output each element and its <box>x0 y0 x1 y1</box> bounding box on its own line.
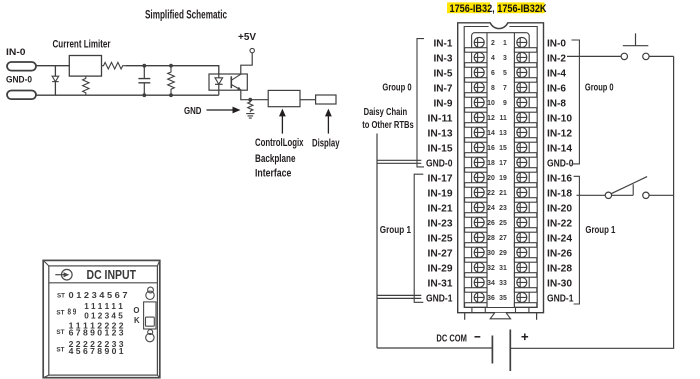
bezel corner diagonals <box>43 260 160 377</box>
terminal row 16|15 <box>465 142 537 157</box>
svg-text:22: 22 <box>487 190 495 197</box>
terminal row 30|29 <box>465 247 537 262</box>
svg-text:IN-4: IN-4 <box>547 69 566 80</box>
RTB inner housing <box>464 27 537 308</box>
DC input icon <box>62 269 73 280</box>
svg-text:20: 20 <box>487 175 495 182</box>
svg-text:8 9: 8 9 <box>68 307 77 316</box>
switch wire to bus <box>649 194 674 196</box>
terminal row 36|35 <box>465 292 537 307</box>
junction dots C1 <box>142 64 146 68</box>
svg-text:4 5 6 7 8 9 0 1: 4 5 6 7 8 9 0 1 <box>69 347 124 356</box>
svg-text:IN-19: IN-19 <box>428 189 453 200</box>
terminal row 8|7 <box>465 82 537 97</box>
optocoupler LED <box>218 74 220 78</box>
svg-text:1756-IB32, 1756-IB32K: 1756-IB32, 1756-IB32K <box>450 3 547 15</box>
group 1 bracket left <box>414 174 423 302</box>
arrow to display box <box>327 116 329 134</box>
wire DC COM left <box>377 347 492 349</box>
svg-text:IN-14: IN-14 <box>547 144 572 155</box>
resistor R4 to ground <box>248 100 253 113</box>
wire battery to bus <box>510 56 673 348</box>
svg-text:IN-23: IN-23 <box>428 219 453 230</box>
optocoupler U1 box <box>209 74 247 90</box>
terminal row 24|23 <box>465 202 537 217</box>
svg-text:IN-24: IN-24 <box>547 234 572 245</box>
+5V terminal and wire <box>250 48 254 52</box>
header divider <box>49 282 158 284</box>
svg-text:Backplane: Backplane <box>255 153 296 165</box>
svg-text:IN-3: IN-3 <box>434 54 453 65</box>
wire bottom from GND-0 oval to optocoupler cathode <box>36 94 219 96</box>
svg-text:IN-30: IN-30 <box>547 279 572 290</box>
terminal carrier <box>472 33 530 308</box>
svg-text:21: 21 <box>499 190 507 197</box>
wire top from IN-0 oval to current limiter <box>36 65 69 67</box>
resistor R2 series <box>102 62 126 69</box>
svg-text:19: 19 <box>499 175 507 182</box>
lock tab top <box>148 287 154 293</box>
svg-text:K: K <box>134 316 140 325</box>
svg-text:1: 1 <box>503 40 507 47</box>
svg-text:Group 0: Group 0 <box>382 83 412 94</box>
toggle switch <box>605 192 611 198</box>
svg-text:32: 32 <box>487 265 495 272</box>
svg-text:Daisy Chain: Daisy Chain <box>364 107 408 118</box>
svg-text:Group 0: Group 0 <box>585 83 614 94</box>
svg-text:28: 28 <box>487 235 495 242</box>
svg-text:25: 25 <box>499 220 507 227</box>
svg-text:8: 8 <box>491 85 495 92</box>
svg-text:IN-31: IN-31 <box>428 279 453 290</box>
ControlLogix backplane box <box>268 90 300 106</box>
terminal row 32|31 <box>465 262 537 277</box>
svg-text:IN-10: IN-10 <box>547 114 572 125</box>
group 0 bracket left <box>417 39 424 167</box>
svg-text:Simplified Schematic: Simplified Schematic <box>145 9 227 21</box>
DC INPUT panel inner plate <box>49 266 158 375</box>
svg-text:IN-28: IN-28 <box>547 264 572 275</box>
junction node <box>248 98 252 102</box>
svg-text:IN-21: IN-21 <box>428 204 453 215</box>
terminal row 6|5 <box>465 67 537 82</box>
connector oval GND-0 <box>7 91 36 100</box>
terminal row 26|25 <box>465 217 537 232</box>
svg-text:Group 1: Group 1 <box>380 225 412 236</box>
battery supply <box>491 336 493 364</box>
svg-text:IN-26: IN-26 <box>547 249 572 260</box>
svg-text:ST: ST <box>56 329 65 336</box>
diode D1 across input <box>54 66 56 96</box>
resistor R1 below current limiter <box>83 76 89 95</box>
GND-1 double wire <box>377 295 421 298</box>
svg-text:IN-0: IN-0 <box>6 47 26 58</box>
junction dots R3 <box>169 64 173 68</box>
svg-text:Group 1: Group 1 <box>585 225 615 236</box>
svg-text:9: 9 <box>503 100 507 107</box>
svg-text:1 1 1 1 1 1: 1 1 1 1 1 1 <box>84 302 123 311</box>
capacitor C1 <box>143 66 145 96</box>
svg-text:2: 2 <box>491 40 495 47</box>
svg-text:30: 30 <box>487 250 495 257</box>
arrow to backplane box <box>281 116 283 134</box>
svg-text:33: 33 <box>499 280 507 287</box>
terminal row 10|9 <box>465 97 537 112</box>
svg-text:24: 24 <box>487 205 495 212</box>
svg-text:IN-22: IN-22 <box>547 219 572 230</box>
part number title highlight <box>447 2 490 13</box>
svg-text:Interface: Interface <box>255 168 291 180</box>
terminal row 34|33 <box>465 277 537 292</box>
svg-text:14: 14 <box>487 130 495 137</box>
svg-text:IN-27: IN-27 <box>428 249 453 260</box>
svg-text:6 7 8 9 0 1 2 3: 6 7 8 9 0 1 2 3 <box>69 328 124 337</box>
svg-text:0 1 2 3 4 5 6 7: 0 1 2 3 4 5 6 7 <box>69 291 128 300</box>
svg-text:GND-1: GND-1 <box>426 294 453 305</box>
svg-text:IN-17: IN-17 <box>428 174 453 185</box>
svg-text:IN-15: IN-15 <box>428 144 453 155</box>
resistor R3 shunt <box>168 66 175 96</box>
group 0 bracket right <box>572 40 580 164</box>
terminal row 20|19 <box>465 172 537 187</box>
svg-text:DC COM: DC COM <box>436 333 467 344</box>
svg-text:18: 18 <box>487 160 495 167</box>
svg-text:29: 29 <box>499 250 507 257</box>
svg-text:IN-8: IN-8 <box>547 99 566 110</box>
svg-text:+5V: +5V <box>238 31 256 43</box>
svg-text:34: 34 <box>487 280 495 287</box>
svg-text:IN-5: IN-5 <box>434 69 453 80</box>
pushbutton switch <box>621 53 627 59</box>
plus sign <box>522 334 529 341</box>
minus sign <box>475 336 481 338</box>
svg-text:27: 27 <box>499 235 507 242</box>
daisy chain wire <box>376 134 378 349</box>
optocoupler phototransistor <box>230 76 232 88</box>
svg-text:IN-25: IN-25 <box>428 234 453 245</box>
svg-text:Display: Display <box>312 138 340 150</box>
svg-text:to Other RTBs: to Other RTBs <box>362 120 414 131</box>
svg-text:10: 10 <box>487 100 495 107</box>
svg-text:DC INPUT: DC INPUT <box>87 268 137 282</box>
svg-text:7: 7 <box>503 85 507 92</box>
svg-text:ST: ST <box>57 293 66 300</box>
pushbutton wire to bus <box>649 55 674 57</box>
svg-text:IN-18: IN-18 <box>547 189 572 200</box>
terminal row 14|13 <box>465 127 537 142</box>
IN-2 wire to pushbutton <box>567 55 621 57</box>
RTB outer housing with top notch <box>458 23 544 313</box>
wire display box <box>300 99 316 101</box>
svg-text:GND-0: GND-0 <box>426 159 453 170</box>
display box <box>316 95 336 104</box>
svg-text:GND-0: GND-0 <box>6 74 32 85</box>
svg-text:6: 6 <box>491 70 495 77</box>
svg-text:17: 17 <box>499 160 507 167</box>
terminal row 4|3 <box>465 52 537 67</box>
svg-text:IN-12: IN-12 <box>547 129 572 140</box>
keying tab <box>490 313 510 319</box>
svg-text:0 1 2 3 4 5: 0 1 2 3 4 5 <box>84 312 123 321</box>
svg-text:31: 31 <box>499 265 507 272</box>
svg-text:IN-9: IN-9 <box>434 99 453 110</box>
terminal row 18|17 <box>465 157 537 172</box>
emitter wire to backplane box <box>241 90 268 100</box>
svg-text:IN-16: IN-16 <box>547 174 572 185</box>
svg-text:23: 23 <box>499 205 507 212</box>
svg-text:IN-11: IN-11 <box>428 114 453 125</box>
ground <box>246 114 254 119</box>
svg-text:IN-29: IN-29 <box>428 264 453 275</box>
terminal row 28|27 <box>465 232 537 247</box>
svg-text:16: 16 <box>487 145 495 152</box>
svg-text:11: 11 <box>500 115 507 122</box>
svg-text:GND-1: GND-1 <box>547 294 574 305</box>
svg-text:GND-0: GND-0 <box>547 159 574 170</box>
svg-text:IN-13: IN-13 <box>428 129 453 140</box>
terminal row 12|11 <box>465 112 537 127</box>
svg-text:36: 36 <box>487 295 495 302</box>
svg-text:15: 15 <box>499 145 507 152</box>
svg-text:IN-2: IN-2 <box>547 54 566 65</box>
current limiter box <box>69 56 101 77</box>
connector oval IN-0 <box>7 62 36 71</box>
wire top segment to opto <box>125 66 219 78</box>
IN-18 wire to switch <box>577 194 606 196</box>
svg-text:26: 26 <box>487 220 495 227</box>
svg-text:3: 3 <box>503 55 507 62</box>
svg-text:Current Limiter: Current Limiter <box>53 39 112 51</box>
switch slot <box>144 302 156 329</box>
svg-text:ST: ST <box>56 347 65 354</box>
svg-text:IN-1: IN-1 <box>434 39 453 50</box>
lock tab bottom <box>148 330 153 335</box>
svg-text:5: 5 <box>503 70 507 77</box>
svg-text:35: 35 <box>499 295 507 302</box>
svg-text:13: 13 <box>499 130 507 137</box>
terminal row 22|21 <box>465 187 537 202</box>
group 1 bracket right <box>574 176 580 304</box>
GND arrow <box>207 109 234 111</box>
svg-text:12: 12 <box>487 115 495 122</box>
RTB mounting feet <box>465 313 537 320</box>
svg-text:O: O <box>133 306 139 315</box>
svg-text:IN-0: IN-0 <box>547 39 566 50</box>
svg-text:GND: GND <box>184 105 202 117</box>
svg-text:IN-7: IN-7 <box>434 84 453 95</box>
svg-text:ControlLogix: ControlLogix <box>255 137 304 149</box>
DC INPUT panel outer bezel <box>43 260 160 377</box>
svg-text:IN-20: IN-20 <box>547 204 572 215</box>
GND-0 double wire <box>377 160 421 163</box>
svg-text:ST: ST <box>56 310 65 317</box>
svg-text:4: 4 <box>491 55 495 62</box>
terminal row 2|1 <box>465 37 537 52</box>
svg-text:IN-6: IN-6 <box>547 84 566 95</box>
